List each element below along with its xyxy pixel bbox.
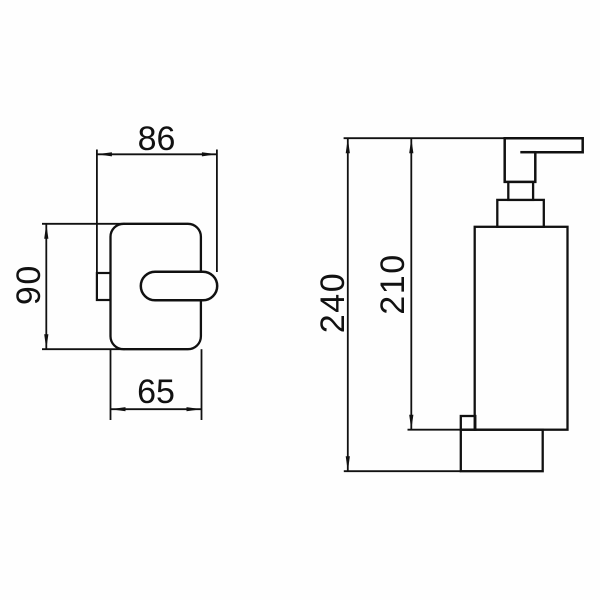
dimension 210: top arrowhead [409,138,413,153]
dimension 240: dimension line [347,138,349,471]
dimension 210: label [374,253,412,315]
pump collar [497,200,544,227]
dimension 90: top arrowhead [44,224,48,239]
svg-text:210: 210 [374,253,412,315]
dimension 65: dimension line [111,408,202,410]
dimension 90: dimension line [45,224,47,349]
svg-text:65: 65 [137,373,175,411]
dimension 210: dimension line [410,138,412,430]
dimension 86: left arrowhead [97,152,112,156]
wall bracket (right view) [461,430,543,472]
dimension 65: right arrowhead [187,407,202,411]
dimension 210: bottom arrowhead [409,415,413,430]
dimension 65: left arrowhead [111,407,126,411]
svg-text:240: 240 [314,272,352,334]
dimension 65: extension line right [201,349,203,420]
dimension 86: right arrowhead [202,152,217,156]
pump neck [508,182,533,200]
dimension 86: dimension line [97,153,217,155]
dimension 90: bottom arrowhead [44,334,48,349]
svg-text:86: 86 [138,120,176,158]
dimension 240: label [314,272,352,334]
dimension 86: extension line left [96,150,98,274]
dimension 86: extension line right [216,150,218,273]
bottle body (right view) [475,227,568,430]
mounting tab (left view) [97,273,111,300]
dimension 210: bottom extension line [408,429,475,431]
dimension 65: label [137,373,175,411]
dimension 90: label [10,264,48,305]
bracket tab (right view) [461,416,476,430]
dimension 240/210: top extension line [344,137,505,139]
dimension 90: extension line top [42,223,125,225]
holder arm (pill shape) [141,272,217,301]
dimension 240: bottom arrowhead [346,456,350,471]
dimension 240: bottom extension line [344,470,461,472]
pump head with spout [505,138,583,182]
dimension 90: extension line bottom [42,348,125,350]
dimension 86: label [138,120,176,158]
wall plate (left view rounded square) [111,224,201,349]
svg-text:90: 90 [10,264,48,305]
dimension 65: extension line left [110,350,112,420]
dimension 240: top arrowhead [346,138,350,153]
